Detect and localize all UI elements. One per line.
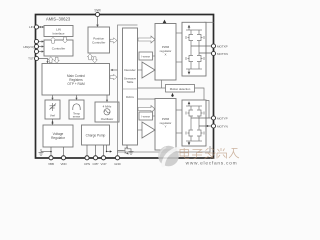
svg-text:Charge Pump: Charge Pump [86,133,106,137]
svg-text:www.elecfans.com: www.elecfans.com [186,160,238,166]
svg-text:SWI: SWI [94,8,100,12]
svg-text:LIN: LIN [29,25,34,29]
svg-text:Controller: Controller [92,41,105,45]
svg-text:OTP + RAM: OTP + RAM [67,82,85,86]
svg-text:VDD: VDD [60,162,66,166]
svg-text:CPN: CPN [84,162,90,166]
svg-text:Table: Table [127,80,134,84]
svg-text:I-sense: I-sense [141,115,150,119]
svg-text:HW[2:0]: HW[2:0] [23,45,34,49]
svg-text:Decoder: Decoder [124,68,135,72]
svg-text:X: X [164,53,166,57]
svg-text:Y: Y [164,125,166,129]
svg-text:Controller: Controller [52,47,65,51]
svg-text:MOTYP: MOTYP [217,116,228,120]
svg-text:DACs: DACs [126,95,134,99]
svg-text:Oscillator: Oscillator [101,117,114,121]
svg-text:Motion detection: Motion detection [170,87,191,91]
svg-text:Vref: Vref [50,114,55,118]
svg-text:I-sense: I-sense [141,55,150,59]
svg-text:Regulator: Regulator [51,136,66,140]
svg-text:Interface: Interface [52,32,64,36]
svg-text:MOTYN: MOTYN [217,124,228,128]
svg-text:MOTXN: MOTXN [217,52,228,56]
svg-text:sense: sense [73,115,81,119]
svg-text:MOTXP: MOTXP [217,44,228,48]
svg-text:VCP: VCP [101,162,107,166]
svg-text:VBB: VBB [48,162,54,166]
svg-text:CPP: CPP [93,162,99,166]
svg-text:GND: GND [114,162,120,166]
svg-text:4 MHz: 4 MHz [103,105,112,109]
svg-text:AMIS−30623: AMIS−30623 [46,16,71,21]
svg-text:TST: TST [28,57,34,61]
